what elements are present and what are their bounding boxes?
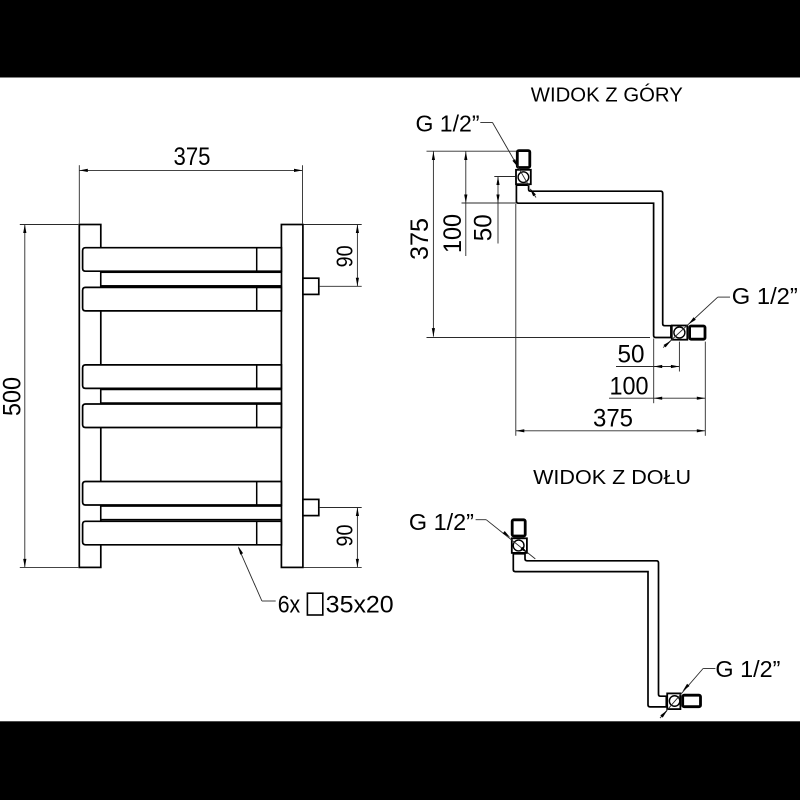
- svg-text:6x: 6x: [278, 592, 301, 619]
- svg-text:100: 100: [610, 373, 649, 401]
- svg-text:G 1/2”: G 1/2”: [416, 110, 480, 136]
- svg-text:90: 90: [331, 525, 357, 547]
- svg-text:90: 90: [331, 245, 357, 267]
- svg-text:G 1/2”: G 1/2”: [715, 656, 780, 682]
- svg-text:WIDOK Z GÓRY: WIDOK Z GÓRY: [531, 83, 683, 106]
- svg-text:375: 375: [406, 218, 434, 260]
- svg-text:500: 500: [0, 377, 27, 416]
- svg-text:WIDOK Z DOŁU: WIDOK Z DOŁU: [533, 466, 691, 489]
- svg-text:35x20: 35x20: [326, 592, 394, 619]
- svg-text:50: 50: [469, 214, 497, 241]
- svg-text:G 1/2”: G 1/2”: [409, 509, 474, 535]
- svg-text:375: 375: [593, 405, 633, 433]
- svg-text:50: 50: [618, 341, 645, 369]
- svg-text:100: 100: [439, 214, 467, 253]
- svg-text:375: 375: [174, 143, 211, 171]
- svg-text:G 1/2”: G 1/2”: [732, 283, 798, 309]
